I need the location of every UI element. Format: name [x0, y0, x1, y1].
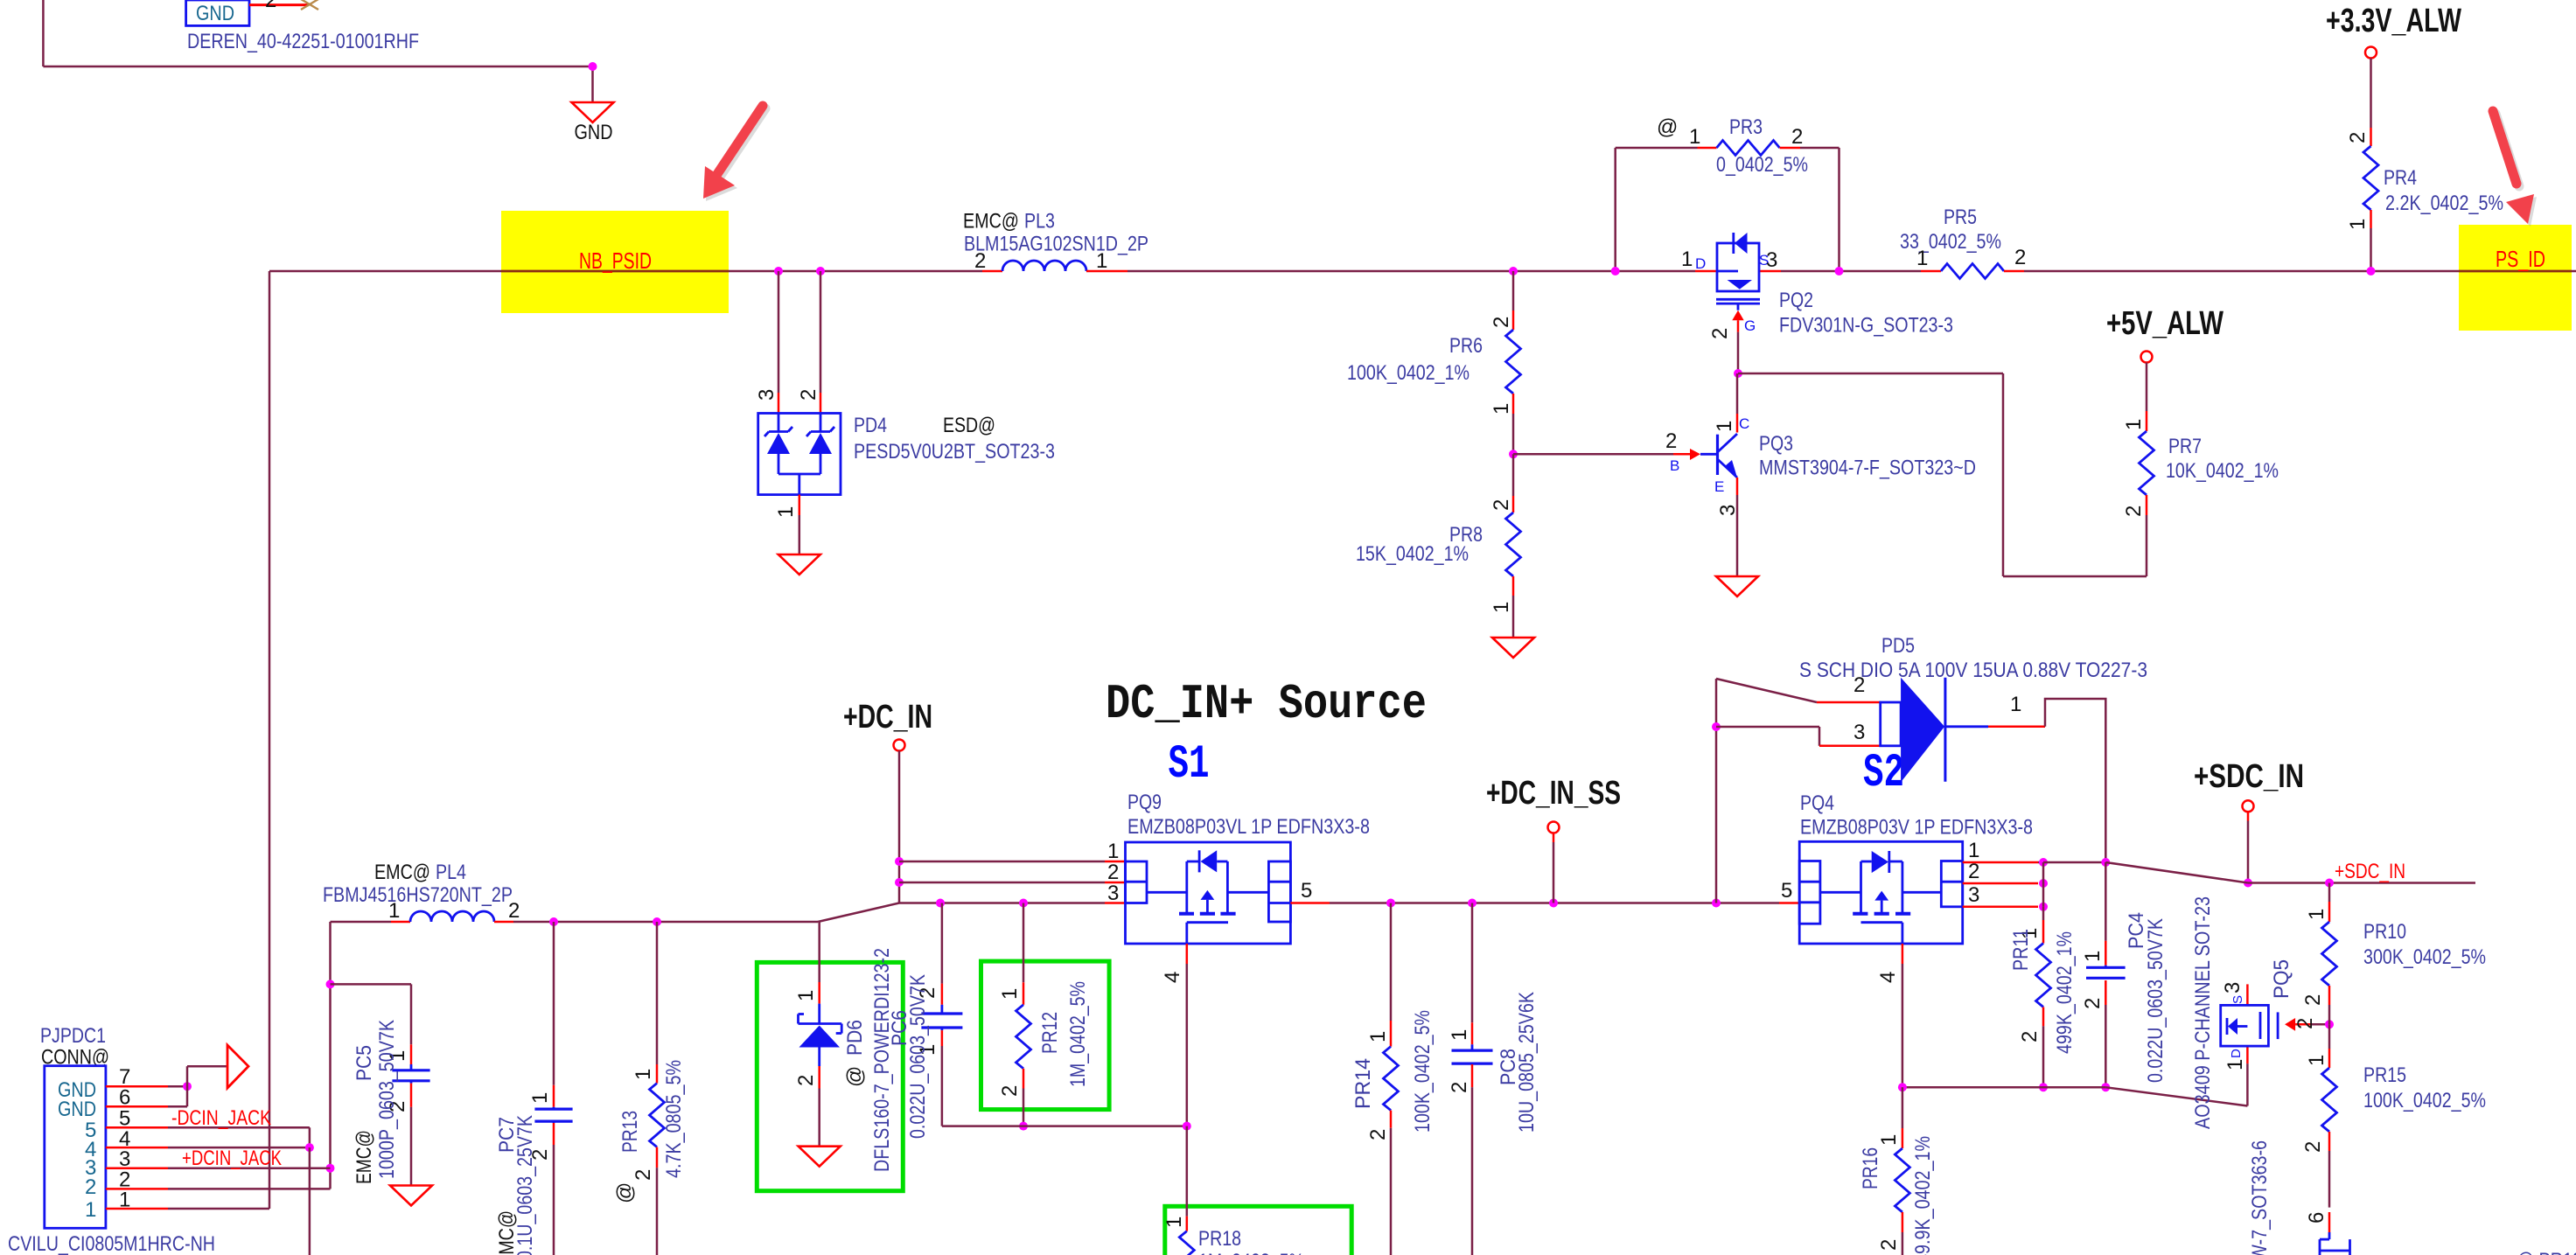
svg-text:15K_0402_1%: 15K_0402_1%: [1356, 542, 1469, 566]
svg-text:PR3: PR3: [1729, 115, 1763, 139]
svg-text:2: 2: [2301, 994, 2325, 1006]
svg-text:1: 1: [1162, 1217, 1186, 1228]
svg-text:2: 2: [1490, 317, 1513, 328]
svg-text:1: 1: [1366, 1031, 1390, 1042]
svg-text:PR12: PR12: [1038, 1012, 1062, 1054]
svg-text:DEREN_40-42251-01001RHF: DEREN_40-42251-01001RHF: [187, 30, 419, 53]
svg-text:+5V_ALW: +5V_ALW: [2106, 305, 2223, 342]
svg-text:C: C: [1739, 415, 1749, 432]
svg-text:4: 4: [1876, 972, 1900, 983]
svg-text:2: 2: [508, 899, 520, 923]
svg-text:NB_PSID: NB_PSID: [579, 248, 652, 274]
svg-text:0.022U_0603_50V7K: 0.022U_0603_50V7K: [906, 974, 930, 1139]
svg-text:BLM15AG102SN1D_2P: BLM15AG102SN1D_2P: [964, 232, 1148, 255]
svg-text:@: @: [613, 1182, 637, 1203]
svg-text:GND: GND: [196, 2, 234, 25]
svg-text:2: 2: [2018, 1031, 2042, 1042]
svg-text:2: 2: [2122, 505, 2146, 517]
svg-text:PR7: PR7: [2168, 435, 2202, 458]
svg-text:3: 3: [2221, 982, 2244, 994]
svg-text:PJPDC1: PJPDC1: [40, 1024, 106, 1048]
svg-text:EMZB08P03V 1P EDFN3X3-8: EMZB08P03V 1P EDFN3X3-8: [1800, 816, 2033, 840]
svg-text:1: 1: [1107, 840, 1119, 863]
svg-text:2: 2: [794, 1075, 818, 1086]
svg-text:1: 1: [1448, 1029, 1471, 1041]
svg-text:+DC_IN_SS: +DC_IN_SS: [1486, 775, 1621, 812]
svg-text:1: 1: [2305, 1055, 2328, 1066]
svg-text:EMC@PL3: EMC@PL3: [963, 210, 1055, 234]
svg-text:2: 2: [797, 389, 820, 401]
svg-text:S2: S2: [1863, 747, 1904, 800]
svg-text:1: 1: [632, 1069, 655, 1080]
svg-text:2: 2: [85, 1175, 96, 1199]
svg-text:1: 1: [1490, 602, 1513, 613]
svg-text:PQ5: PQ5: [2270, 959, 2293, 999]
svg-text:6: 6: [2305, 1212, 2328, 1224]
svg-text:DC_IN+ Source: DC_IN+ Source: [1106, 676, 1427, 732]
svg-text:PR14: PR14: [1351, 1058, 1375, 1109]
svg-text:1: 1: [2223, 1059, 2247, 1070]
svg-text:1: 1: [1681, 248, 1693, 271]
svg-text:PR10: PR10: [2363, 920, 2406, 944]
svg-text:33_0402_5%: 33_0402_5%: [1900, 230, 2001, 254]
svg-text:2: 2: [2346, 132, 2370, 143]
svg-text:2: 2: [265, 0, 276, 12]
svg-text:-DCIN_JACK: -DCIN_JACK: [171, 1106, 271, 1130]
svg-text:@: @: [843, 1066, 867, 1087]
svg-text:PQ3: PQ3: [1759, 432, 1793, 456]
svg-text:1: 1: [1096, 249, 1107, 273]
svg-text:GND: GND: [58, 1098, 96, 1121]
svg-text:1: 1: [388, 899, 400, 923]
svg-text:EMC@: EMC@: [353, 1130, 376, 1184]
svg-text:0.1U_0603_25V7K: 0.1U_0603_25V7K: [513, 1115, 537, 1255]
svg-text:+3.3V_ALW: +3.3V_ALW: [2326, 3, 2461, 39]
svg-text:D: D: [2229, 1049, 2244, 1058]
svg-text:1: 1: [2122, 419, 2146, 430]
svg-text:2: 2: [1877, 1239, 1901, 1251]
svg-text:1000P_0603_50V7K: 1000P_0603_50V7K: [375, 1020, 399, 1179]
svg-text:PR16: PR16: [1859, 1147, 1882, 1189]
svg-text:1: 1: [1713, 421, 1736, 432]
svg-text:PS_ID: PS_ID: [2496, 246, 2545, 272]
svg-text:1: 1: [1916, 247, 1928, 270]
svg-text:PC5: PC5: [353, 1045, 376, 1081]
svg-text:FDV301N-G_SOT23-3: FDV301N-G_SOT23-3: [1779, 314, 1953, 338]
svg-text:@ PR19: @ PR19: [2517, 1249, 2576, 1255]
svg-text:2: 2: [1708, 328, 1732, 339]
svg-text:E: E: [1714, 478, 1724, 495]
svg-text:2: 2: [998, 1085, 1022, 1097]
svg-text:10U_0805_25V6K: 10U_0805_25V6K: [1515, 992, 1539, 1133]
svg-text:+SDC_IN: +SDC_IN: [2194, 758, 2304, 795]
svg-text:0.022U_0603_50V7K: 0.022U_0603_50V7K: [2144, 918, 2168, 1083]
svg-text:100K_0402_1%: 100K_0402_1%: [1347, 361, 1470, 385]
svg-text:PR11: PR11: [2009, 929, 2033, 971]
svg-text:2: 2: [2293, 1018, 2317, 1029]
svg-text:S: S: [2230, 995, 2245, 1004]
svg-text:AO3409 P-CHANNEL SOT-23: AO3409 P-CHANNEL SOT-23: [2191, 896, 2215, 1129]
svg-text:2: 2: [1490, 499, 1513, 511]
svg-text:EMZB08P03VL 1P EDFN3X3-8: EMZB08P03VL 1P EDFN3X3-8: [1127, 815, 1370, 839]
svg-text:PESD5V0U2BT_SOT23-3: PESD5V0U2BT_SOT23-3: [854, 440, 1055, 464]
svg-text:1: 1: [85, 1198, 96, 1222]
svg-text:1: 1: [998, 988, 1022, 1000]
svg-text:PR6: PR6: [1449, 334, 1483, 358]
svg-text:1M_0402_5%: 1M_0402_5%: [1066, 981, 1090, 1087]
svg-text:499K_0402_1%: 499K_0402_1%: [2053, 931, 2077, 1054]
svg-text:10K_0402_1%: 10K_0402_1%: [2166, 459, 2279, 483]
svg-text:5: 5: [1781, 879, 1792, 903]
svg-text:PD6: PD6: [843, 1020, 867, 1056]
svg-text:1: 1: [1490, 403, 1513, 415]
svg-text:1M_0402_5%: 1M_0402_5%: [1198, 1250, 1304, 1255]
svg-text:2: 2: [1448, 1082, 1471, 1093]
svg-text:@: @: [1657, 115, 1678, 139]
svg-text:PR13: PR13: [618, 1111, 642, 1153]
svg-text:2: 2: [1107, 861, 1119, 884]
svg-text:MMST3904-7-F_SOT323~D: MMST3904-7-F_SOT323~D: [1759, 457, 1976, 480]
svg-text:+DCIN_JACK: +DCIN_JACK: [182, 1147, 282, 1170]
svg-text:5: 5: [1301, 879, 1312, 903]
svg-text:2: 2: [2081, 998, 2105, 1009]
svg-text:1: 1: [2081, 951, 2105, 962]
svg-text:49.9K_0402_1%: 49.9K_0402_1%: [1911, 1136, 1935, 1255]
svg-text:3: 3: [1766, 248, 1777, 272]
svg-text:3: 3: [1716, 505, 1740, 516]
svg-text:PQ2: PQ2: [1779, 289, 1813, 312]
svg-text:100K_0402_5%: 100K_0402_5%: [1411, 1010, 1435, 1133]
svg-text:PR15: PR15: [2363, 1063, 2406, 1087]
svg-text:1: 1: [528, 1092, 552, 1104]
svg-text:3: 3: [1853, 721, 1865, 744]
svg-text:300K_0402_5%: 300K_0402_5%: [2363, 945, 2486, 969]
svg-text:S1: S1: [1169, 738, 1210, 791]
svg-text:1: 1: [1689, 125, 1700, 149]
svg-text:2: 2: [1366, 1129, 1390, 1140]
svg-text:3: 3: [1107, 882, 1119, 905]
svg-text:1: 1: [794, 990, 818, 1001]
svg-text:PQ9: PQ9: [1127, 791, 1162, 814]
svg-text:0_0402_5%: 0_0402_5%: [1716, 153, 1808, 177]
svg-text:1: 1: [2010, 693, 2021, 716]
svg-text:PQ4: PQ4: [1800, 791, 1834, 815]
svg-text:DFLS160-7_POWERDI123-2: DFLS160-7_POWERDI123-2: [870, 948, 894, 1172]
svg-text:FBMJ4516HS720NT_2P: FBMJ4516HS720NT_2P: [323, 883, 513, 907]
svg-text:PD4: PD4: [854, 414, 887, 437]
svg-text:D: D: [1695, 255, 1706, 272]
svg-text:B: B: [1670, 457, 1679, 474]
svg-text:PR5: PR5: [1944, 206, 1977, 229]
svg-text:1: 1: [2305, 909, 2328, 920]
svg-text:GND: GND: [575, 121, 613, 144]
svg-text:1: 1: [1968, 839, 1979, 862]
svg-text:1: 1: [2346, 219, 2370, 230]
svg-text:1: 1: [1877, 1134, 1901, 1146]
svg-text:4: 4: [1161, 972, 1184, 983]
svg-text:3: 3: [1968, 883, 1979, 907]
svg-text:EMC@PL4: EMC@PL4: [374, 861, 466, 884]
svg-text:2: 2: [2014, 246, 2026, 269]
svg-text:2.2K_0402_5%: 2.2K_0402_5%: [2385, 192, 2503, 215]
svg-text:G: G: [1744, 317, 1756, 334]
svg-text:100K_0402_5%: 100K_0402_5%: [2363, 1089, 2486, 1112]
svg-text:+SDC_IN: +SDC_IN: [2335, 860, 2405, 883]
svg-text:PR4: PR4: [2384, 166, 2417, 190]
svg-text:2: 2: [2301, 1141, 2325, 1153]
svg-text:+DC_IN: +DC_IN: [843, 699, 932, 736]
svg-text:4.7K_0805_5%: 4.7K_0805_5%: [662, 1060, 686, 1178]
svg-text:1: 1: [774, 506, 798, 518]
svg-text:ESD@: ESD@: [943, 414, 995, 437]
svg-text:2: 2: [1791, 125, 1803, 149]
svg-text:2: 2: [632, 1169, 655, 1181]
svg-text:S SCH DIO 5A 100V 15UA 0.88V T: S SCH DIO 5A 100V 15UA 0.88V TO227-3: [1799, 659, 2147, 682]
svg-text:CVILU_CI0805M1HRC-NH: CVILU_CI0805M1HRC-NH: [8, 1232, 215, 1255]
svg-text:2: 2: [1968, 860, 1979, 883]
svg-text:PR18: PR18: [1198, 1227, 1241, 1251]
svg-text:2: 2: [1853, 673, 1865, 697]
svg-text:2N7002DW-7_SOT363-6: 2N7002DW-7_SOT363-6: [2248, 1140, 2272, 1255]
svg-text:PD5: PD5: [1881, 634, 1915, 658]
svg-text:3: 3: [755, 389, 778, 401]
svg-text:2: 2: [974, 249, 986, 273]
svg-text:2: 2: [1665, 429, 1677, 453]
